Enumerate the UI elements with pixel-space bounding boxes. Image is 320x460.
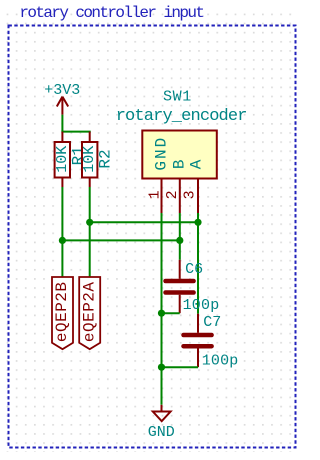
wire C7 bottom to GND line (162, 366, 199, 368)
svg-text:C7: C7 (203, 314, 221, 331)
svg-text:R2: R2 (97, 149, 115, 168)
resistor R1 (55, 132, 70, 187)
capacitor C7 (184, 314, 212, 368)
junction R1/lower (59, 237, 66, 244)
power symbol +3V3 (57, 97, 68, 115)
svg-text:eQEP2B: eQEP2B (53, 281, 71, 342)
svg-text:+3V3: +3V3 (44, 82, 80, 99)
SW1 pin 2 (179, 179, 181, 214)
svg-text:C6: C6 (185, 261, 203, 278)
wire +3V3 down (61, 115, 63, 132)
svg-text:eQEP2A: eQEP2A (80, 281, 98, 342)
svg-text:rotary_encoder: rotary_encoder (116, 107, 247, 126)
SW1 pin 3 (197, 179, 199, 214)
wire horizontal to R1/R2 tops (61, 131, 90, 133)
junction C7/GND line (158, 364, 165, 371)
junction R2/upper (86, 219, 93, 226)
wire R2 down to label (89, 187, 91, 277)
svg-text:GND: GND (153, 136, 171, 171)
svg-text:A: A (188, 159, 206, 169)
svg-text:3: 3 (181, 190, 198, 199)
global label eQEP2B (52, 277, 73, 349)
svg-text:10K: 10K (54, 146, 71, 173)
svg-text:GND: GND (148, 424, 175, 441)
svg-text:1: 1 (146, 190, 163, 199)
junction C6/GND line (158, 310, 165, 317)
wire pin2 B down (179, 213, 181, 260)
svg-text:100p: 100p (202, 353, 239, 370)
wire lower horizontal R1-B (62, 239, 179, 241)
svg-text:B: B (170, 159, 188, 169)
resistor R2 (82, 132, 97, 187)
svg-text:rotary controller input: rotary controller input (19, 4, 203, 22)
power symbol GND (153, 405, 171, 421)
global label eQEP2A (79, 277, 100, 349)
wire pin3 A down (197, 213, 199, 314)
svg-text:2: 2 (164, 190, 181, 199)
SW1 pin 1 (161, 179, 163, 214)
svg-text:100p: 100p (183, 297, 220, 314)
wire pin1 GND down (161, 213, 163, 405)
junction A/upper (194, 219, 201, 226)
switch SW1 body (142, 131, 217, 179)
wire C6 bottom to GND line (162, 312, 180, 314)
junction B/lower (176, 237, 183, 244)
svg-text:SW1: SW1 (163, 89, 192, 106)
wire upper horizontal R2-A (90, 221, 198, 223)
capacitor C6 (166, 260, 194, 313)
wire R1 down to label (61, 187, 63, 277)
